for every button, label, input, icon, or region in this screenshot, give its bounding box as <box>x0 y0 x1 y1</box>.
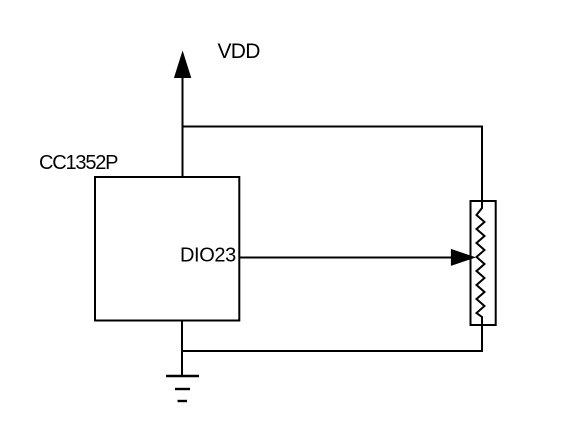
svg-text:VDD: VDD <box>218 40 261 63</box>
resistor R1 zigzag element <box>477 202 485 324</box>
IC U1 CC1352P <box>95 177 239 321</box>
wiper arrowhead <box>451 249 476 266</box>
wire DIO23 to wiper arrow <box>239 257 453 259</box>
wire VDD branch to resistor top <box>183 127 483 203</box>
wire IC bottom to ground <box>181 321 183 377</box>
wire bottom return to resistor <box>182 324 482 351</box>
svg-text:CC1352P: CC1352P <box>39 152 118 174</box>
power symbol VDD arrow <box>174 51 191 178</box>
svg-text:DIO23: DIO23 <box>180 245 236 267</box>
resistor R1 body <box>471 201 496 325</box>
ground <box>166 376 199 401</box>
